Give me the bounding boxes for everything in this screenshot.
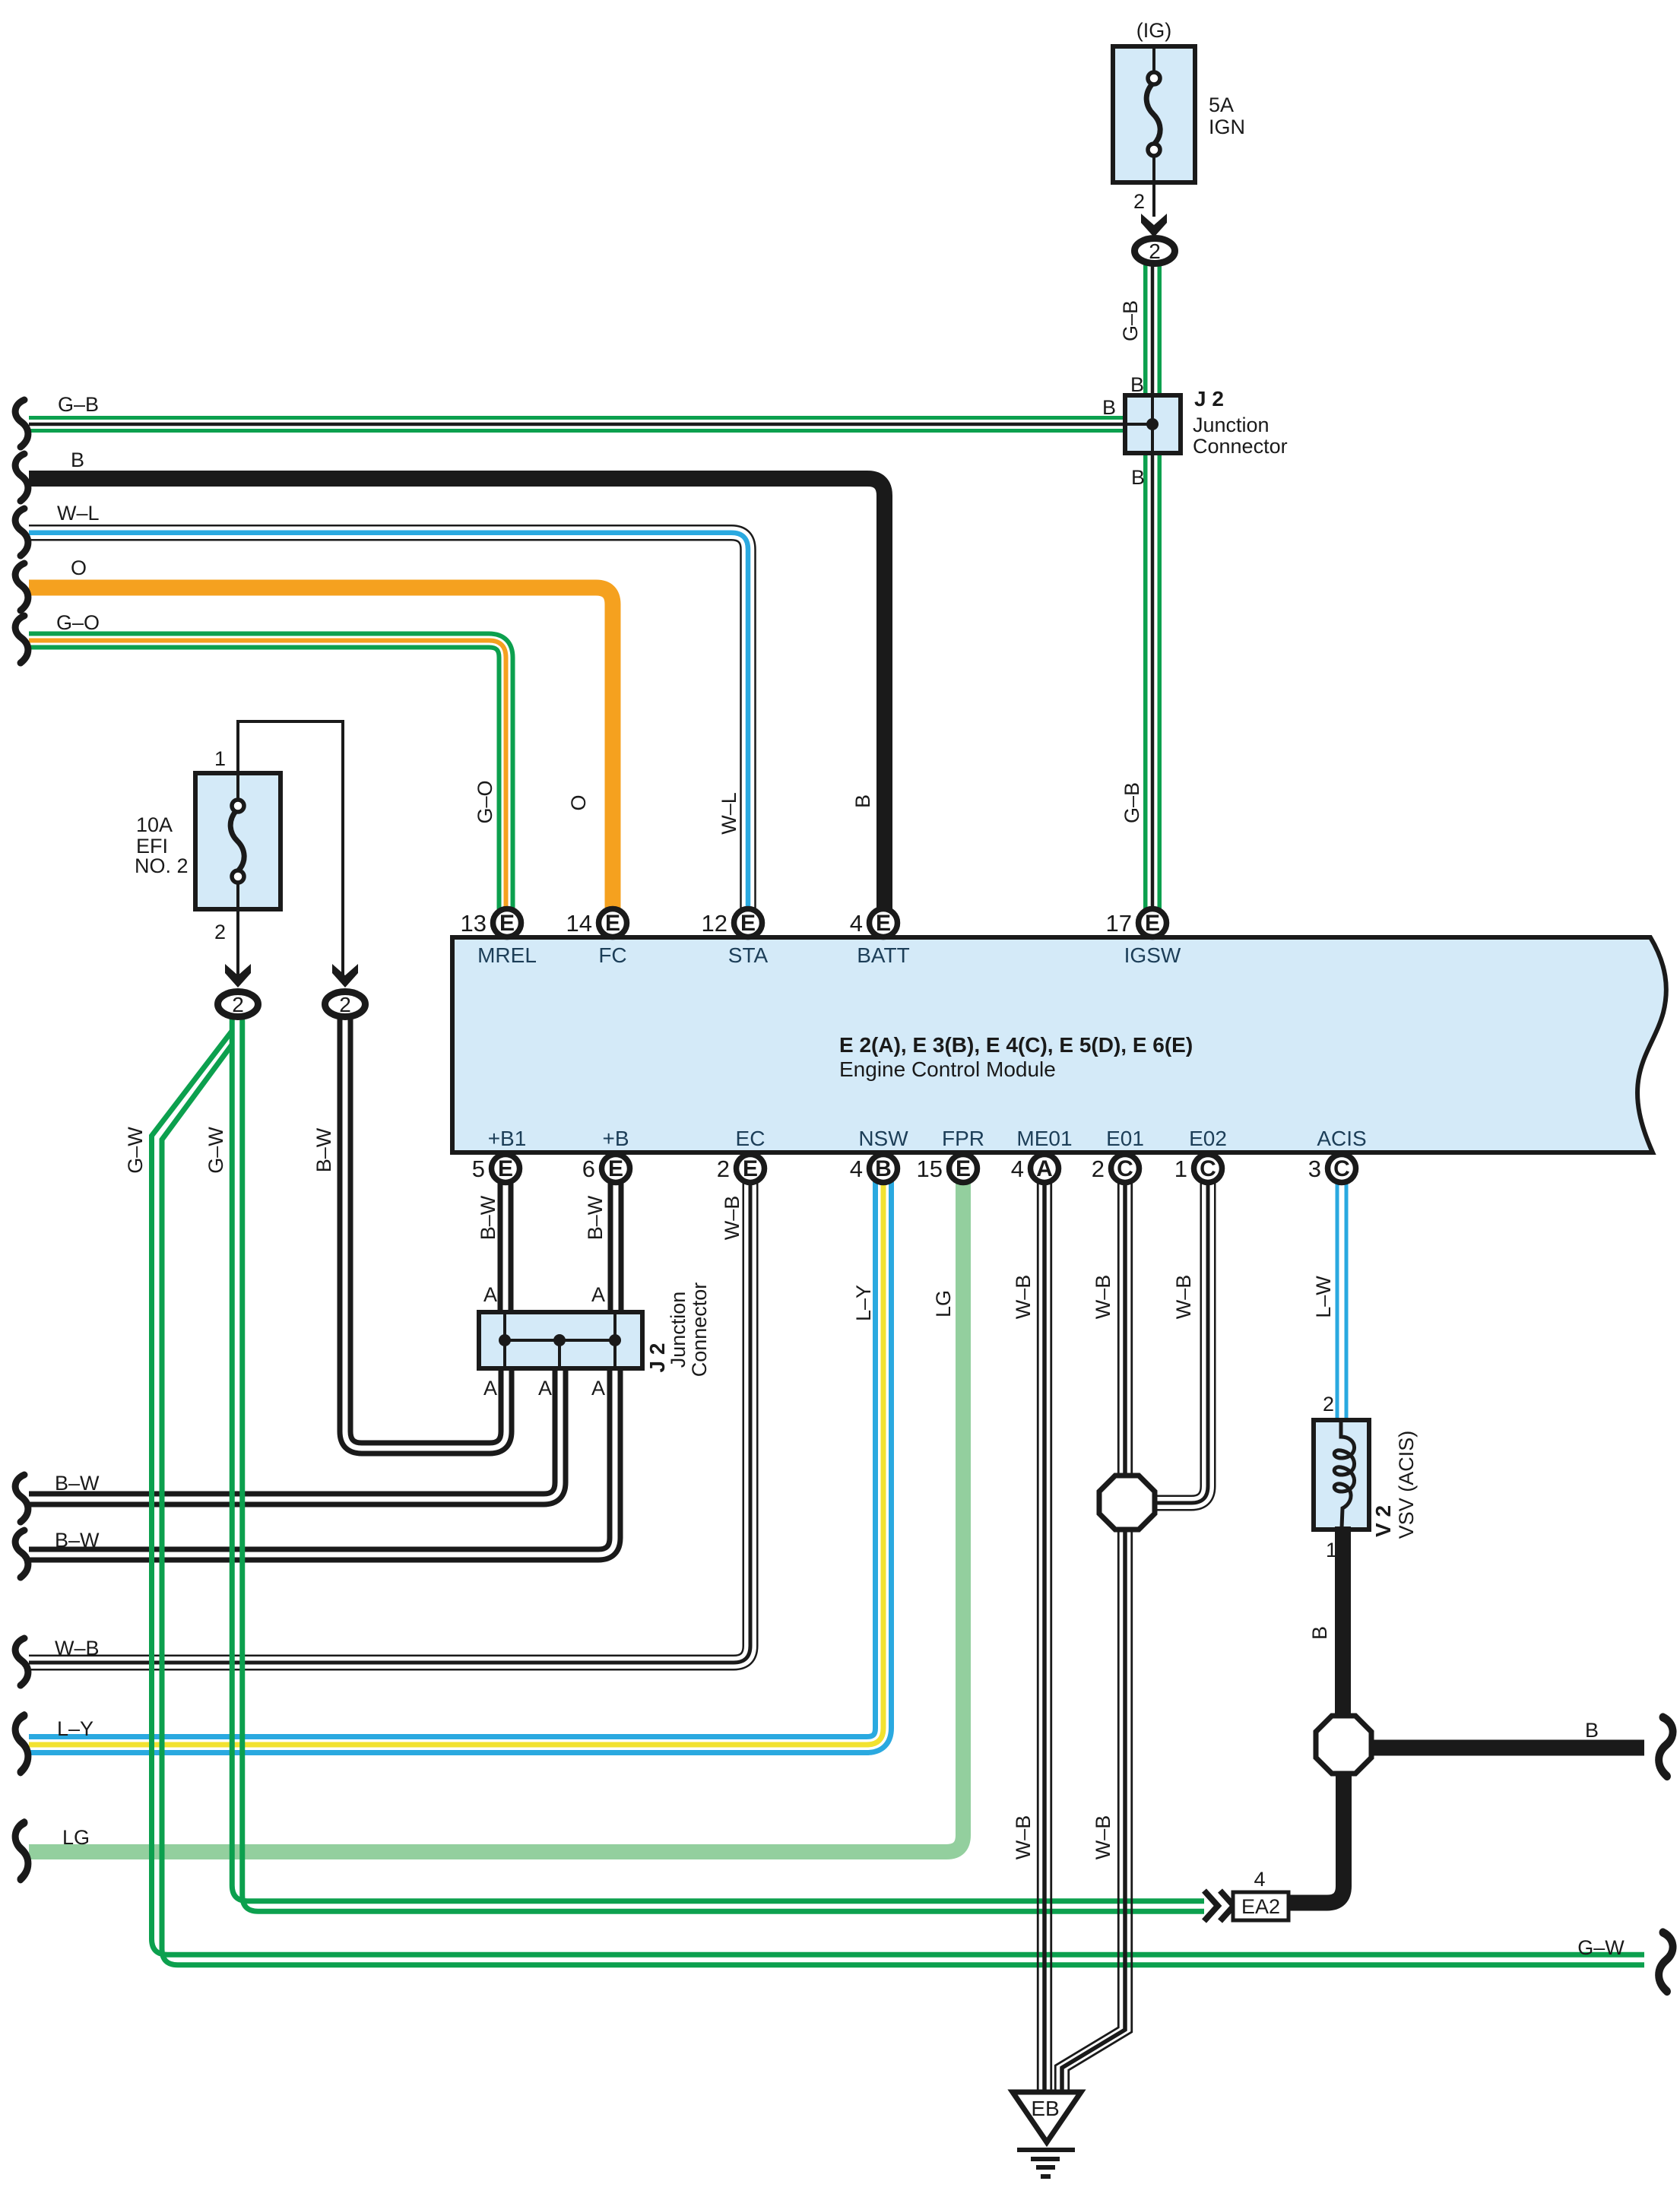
pin 4 B NSW	[850, 1155, 898, 1183]
svg-text:G–W: G–W	[1577, 1936, 1625, 1959]
pin 4 E BATT	[850, 909, 898, 937]
svg-text:(IG): (IG)	[1136, 19, 1172, 42]
junction connector J2 upper	[1125, 387, 1288, 458]
connector EA2	[1233, 1868, 1289, 1920]
svg-text:E: E	[498, 1156, 513, 1181]
wire B to BATT	[29, 479, 885, 924]
svg-text:W–L: W–L	[718, 792, 740, 835]
connector arrow 2 (EFI)	[225, 964, 251, 988]
svg-text:5A: 5A	[1209, 94, 1234, 116]
continuation mark B	[15, 454, 28, 501]
svg-text:A: A	[483, 1377, 497, 1400]
svg-text:STA: STA	[728, 943, 769, 967]
svg-text:E: E	[956, 1156, 971, 1181]
svg-text:L–Y: L–Y	[57, 1717, 94, 1740]
continuation mark G-B	[15, 400, 28, 447]
svg-text:W–B: W–B	[1172, 1275, 1195, 1320]
node octagon E01/E02	[1099, 1476, 1155, 1530]
svg-text:W–B: W–B	[1092, 1275, 1114, 1320]
connector arrow 2 (IG)	[1141, 214, 1167, 237]
continuation mark L-Y	[15, 1716, 28, 1772]
svg-text:FC: FC	[598, 943, 626, 967]
fuse 10A EFI NO.2	[135, 773, 281, 909]
svg-text:B–W: B–W	[477, 1195, 499, 1240]
continuation mark G-W right	[1659, 1932, 1672, 1992]
svg-text:13: 13	[461, 910, 487, 937]
svg-text:G–B: G–B	[58, 393, 99, 416]
wire L-W from ACIS to VSV	[1336, 1168, 1349, 1423]
wire B-W from +B to J2	[608, 1168, 624, 1312]
wire B from node to right edge	[1371, 1740, 1644, 1756]
svg-text:NSW: NSW	[858, 1127, 908, 1150]
svg-text:Connector: Connector	[1193, 435, 1288, 458]
VSV (ACIS) V2 solenoid	[1314, 1393, 1369, 1561]
svg-text:A: A	[483, 1283, 497, 1306]
pin 17 E IGSW	[1106, 909, 1167, 937]
svg-text:LG: LG	[932, 1290, 955, 1317]
svg-text:B: B	[875, 1156, 892, 1181]
svg-text:E02: E02	[1189, 1127, 1227, 1150]
svg-text:FPR: FPR	[942, 1127, 984, 1150]
svg-text:E 2(A), E 3(B), E 4(C), E 5(D): E 2(A), E 3(B), E 4(C), E 5(D), E 6(E)	[839, 1033, 1193, 1057]
svg-text:E: E	[605, 911, 620, 936]
wire B-W from +B1 to J2	[498, 1168, 514, 1312]
svg-text:L–Y: L–Y	[852, 1285, 875, 1321]
wire B from node down to EA2	[1289, 1774, 1344, 1903]
wire loop from fuse EFI pin 1	[214, 721, 343, 977]
pin 12 E STA	[702, 909, 762, 937]
pin 15 E FPR	[917, 1155, 978, 1183]
svg-text:ACIS: ACIS	[1317, 1127, 1366, 1150]
continuation mark W-L	[15, 509, 28, 556]
continuation mark W-B	[15, 1638, 28, 1685]
svg-text:A: A	[591, 1377, 605, 1400]
svg-text:B: B	[1102, 396, 1116, 419]
wire W-B from E01 via node to ground EB	[1055, 1168, 1132, 2094]
pin 3 C ACIS	[1308, 1155, 1356, 1183]
pin 14 E FC	[566, 909, 627, 937]
svg-text:J 2: J 2	[1194, 387, 1224, 411]
pin 1 C E02	[1174, 1155, 1222, 1183]
wire W-B from EC to left edge	[29, 1168, 750, 1663]
svg-text:6: 6	[582, 1156, 595, 1182]
svg-text:O: O	[71, 556, 87, 579]
svg-text:G–B: G–B	[1121, 782, 1143, 823]
ground EB	[1013, 2092, 1081, 2142]
svg-text:Connector: Connector	[688, 1282, 711, 1377]
svg-text:E: E	[608, 1156, 623, 1181]
svg-text:Engine Control Module: Engine Control Module	[839, 1057, 1056, 1081]
svg-text:B–W: B–W	[584, 1195, 607, 1240]
svg-text:E: E	[743, 1156, 758, 1181]
svg-text:B: B	[1585, 1719, 1599, 1742]
svg-text:NO. 2: NO. 2	[135, 854, 189, 877]
wire W-L to STA	[29, 533, 748, 923]
wire O to FC	[29, 588, 613, 923]
svg-text:Junction: Junction	[667, 1292, 689, 1368]
svg-text:EB: EB	[1031, 2097, 1059, 2120]
continuation mark B-W 1	[15, 1475, 28, 1522]
svg-text:+B1: +B1	[488, 1127, 527, 1150]
pin 4 A ME01	[1011, 1155, 1059, 1183]
svg-text:W–B: W–B	[1012, 1275, 1035, 1320]
svg-text:2: 2	[339, 993, 351, 1016]
wire W-B from ME01 to ground EB	[1038, 1168, 1051, 2094]
fuse 5A IGN	[1113, 19, 1245, 182]
svg-text:1: 1	[214, 747, 226, 770]
svg-text:2: 2	[1149, 239, 1161, 263]
wire L-Y from NSW to left edge	[29, 1168, 883, 1745]
svg-text:17: 17	[1106, 910, 1132, 937]
wire LG from FPR to left edge	[29, 1168, 963, 1852]
svg-text:2: 2	[232, 993, 244, 1016]
svg-text:4: 4	[1254, 1868, 1265, 1891]
svg-text:E01: E01	[1106, 1127, 1144, 1150]
svg-text:2: 2	[717, 1156, 730, 1182]
svg-text:B: B	[1308, 1626, 1331, 1640]
wire G-B vertical from IG fuse through J2 to IGSW	[1143, 263, 1162, 923]
svg-text:G–O: G–O	[56, 611, 100, 634]
wire B from VSV to node octagon	[1335, 1526, 1351, 1719]
svg-text:B: B	[1130, 373, 1144, 396]
svg-text:EC: EC	[736, 1127, 766, 1150]
svg-text:V 2: V 2	[1371, 1505, 1395, 1537]
svg-text:2: 2	[1092, 1156, 1105, 1182]
wire from fuse IGN pin 2	[1133, 182, 1154, 217]
svg-text:A: A	[591, 1283, 605, 1306]
svg-text:J 2: J 2	[645, 1343, 669, 1373]
svg-text:14: 14	[566, 910, 592, 937]
wire from fuse EFI pin 2	[214, 909, 238, 977]
oval connector 2 right	[325, 992, 366, 1017]
svg-text:G–W: G–W	[204, 1127, 227, 1174]
svg-text:BATT: BATT	[857, 943, 909, 967]
svg-text:IGN: IGN	[1209, 116, 1245, 138]
svg-text:ME01: ME01	[1016, 1127, 1072, 1150]
svg-text:B–W: B–W	[55, 1472, 100, 1495]
svg-text:B: B	[851, 794, 874, 808]
oval connector 2 (IG)	[1135, 239, 1175, 264]
continuation mark B right	[1659, 1717, 1672, 1777]
wire B-W from J2 middle port to left edge	[29, 1368, 560, 1499]
svg-text:C: C	[1117, 1156, 1133, 1181]
wire G-W from oval 2 via diagonal to right edge	[152, 1031, 1645, 1965]
svg-text:4: 4	[850, 910, 863, 937]
wire G-O to MREL	[29, 641, 506, 924]
svg-text:A: A	[538, 1377, 552, 1400]
svg-text:W–B: W–B	[55, 1637, 100, 1660]
wire G-B left to J2	[29, 416, 1127, 433]
continuation mark O	[15, 563, 28, 610]
pin 2 E EC	[717, 1155, 765, 1183]
svg-text:E: E	[1145, 911, 1160, 936]
svg-text:B–W: B–W	[312, 1127, 335, 1172]
svg-text:C: C	[1200, 1156, 1216, 1181]
continuation mark LG	[15, 1823, 28, 1879]
svg-text:2: 2	[1323, 1393, 1334, 1416]
svg-text:G–B: G–B	[1119, 300, 1142, 341]
svg-text:4: 4	[1011, 1156, 1024, 1182]
pin 6 E +B	[582, 1155, 630, 1183]
wire G-W from oval 2 to EA2 chevron	[232, 1017, 1204, 1911]
ground symbol	[1017, 2150, 1075, 2176]
svg-text:2: 2	[1133, 190, 1145, 213]
svg-text:B: B	[71, 449, 84, 471]
svg-text:IGSW: IGSW	[1124, 943, 1181, 967]
oval connector 2 left	[218, 992, 258, 1017]
pin 2 C E01	[1092, 1155, 1140, 1183]
svg-text:5: 5	[472, 1156, 485, 1182]
svg-text:4: 4	[850, 1156, 863, 1182]
svg-text:LG: LG	[62, 1826, 90, 1849]
wire B-W from J2 right port to left edge	[29, 1368, 615, 1555]
svg-text:G–O: G–O	[474, 780, 496, 823]
svg-text:W–B: W–B	[1092, 1815, 1114, 1860]
svg-text:B–W: B–W	[55, 1529, 100, 1552]
svg-text:E: E	[876, 911, 891, 936]
svg-text:E: E	[740, 911, 756, 936]
svg-text:W–B: W–B	[721, 1196, 743, 1241]
svg-text:L–W: L–W	[1312, 1276, 1335, 1318]
connector arrow 2 (loop)	[332, 964, 358, 988]
svg-text:A: A	[1036, 1156, 1053, 1181]
svg-text:C: C	[1333, 1156, 1350, 1181]
ECM E2-E6 Engine Control Module	[452, 937, 1666, 1152]
wire B-W U-loop from oval 2 to J2 left port	[345, 1016, 506, 1448]
svg-text:E: E	[499, 911, 515, 936]
svg-text:MREL: MREL	[477, 943, 537, 967]
svg-text:3: 3	[1308, 1156, 1321, 1182]
svg-text:W–B: W–B	[1012, 1815, 1035, 1860]
pin 13 E MREL	[461, 909, 521, 937]
continuation mark B-W 2	[15, 1530, 28, 1577]
svg-text:10A: 10A	[136, 813, 173, 836]
svg-text:Junction: Junction	[1193, 414, 1270, 436]
svg-text:EA2: EA2	[1241, 1895, 1280, 1918]
svg-text:W–L: W–L	[57, 502, 100, 525]
wire W-B from E02 to octagon node	[1155, 1168, 1208, 1503]
continuation mark G-O	[15, 616, 28, 663]
svg-text:VSV (ACIS): VSV (ACIS)	[1395, 1431, 1418, 1539]
node octagon B	[1316, 1716, 1371, 1774]
svg-text:12: 12	[702, 910, 727, 937]
svg-text:15: 15	[917, 1156, 943, 1182]
junction connector J2 lower	[479, 1312, 642, 1368]
svg-text:G–W: G–W	[124, 1127, 147, 1174]
svg-text:+B: +B	[602, 1127, 629, 1150]
pin 5 E +B1	[472, 1155, 520, 1183]
connector chevrons EA2	[1204, 1891, 1234, 1921]
svg-text:O: O	[567, 794, 590, 810]
svg-text:2: 2	[214, 921, 226, 943]
svg-text:B: B	[1131, 466, 1145, 489]
svg-text:1: 1	[1174, 1156, 1187, 1182]
